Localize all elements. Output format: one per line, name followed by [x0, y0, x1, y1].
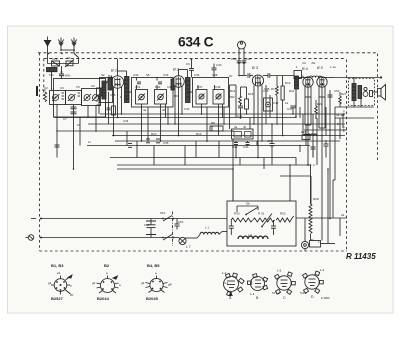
- mains filter capacitor C50: [146, 219, 156, 238]
- wire B1 anode: [117, 59, 119, 76]
- tuned circuit box L2: [66, 91, 82, 105]
- chassis dashed border inner left: [43, 59, 45, 96]
- motor unit M: [301, 218, 308, 251]
- svg-text:1 1a: 1 1a: [330, 65, 336, 69]
- svg-text:C4a: C4a: [232, 145, 238, 149]
- mains line bottom: [40, 237, 179, 239]
- resistor R27 vertical: [339, 96, 342, 104]
- padder capacitor C6: [109, 83, 112, 85]
- coupling unit box: [294, 71, 302, 79]
- wire C44 to B3: [250, 75, 253, 77]
- valve B4: [302, 67, 313, 87]
- IF transformer T1 winding: [125, 77, 130, 103]
- svg-text:R13: R13: [196, 132, 202, 136]
- svg-text:R32: R32: [280, 212, 286, 216]
- svg-text:C9: C9: [186, 62, 190, 66]
- svg-text:D: D: [311, 295, 314, 299]
- IF transformer T2 winding: [186, 78, 191, 103]
- switch S2 range: [65, 56, 74, 67]
- capacitor C49: [242, 57, 251, 76]
- bus line y169: [117, 168, 233, 170]
- svg-text:C3b: C3b: [167, 85, 173, 89]
- resistor R8 bus box: [210, 126, 223, 131]
- T4 secondary winding: [358, 86, 362, 99]
- capacitor C21 bus: [156, 138, 160, 140]
- wire choke to box: [219, 232, 222, 235]
- valve B3: [252, 65, 264, 86]
- capacitor C13: [158, 81, 162, 83]
- svg-text:B 3: B 3: [252, 65, 259, 70]
- capacitor C52: [328, 94, 333, 96]
- valve base B4 B5: [141, 263, 173, 301]
- svg-text:1-4: 1-4: [250, 292, 255, 296]
- T4 primary winding: [352, 84, 356, 101]
- svg-text:g4: g4: [92, 281, 96, 285]
- svg-text:S7: S7: [229, 74, 233, 78]
- svg-text:B 1: B 1: [111, 68, 117, 73]
- front end outer box: [54, 79, 106, 118]
- svg-text:R8: R8: [211, 121, 215, 125]
- chassis dashed border top: [38, 52, 378, 54]
- wire anode top bus: [294, 77, 310, 79]
- valve B2: [173, 67, 185, 88]
- bus line y139: [115, 140, 340, 142]
- mains switch SK1a: [163, 216, 172, 222]
- svg-text:C19: C19: [52, 57, 58, 61]
- svg-text:C5: C5: [76, 85, 80, 89]
- svg-text:C6: C6: [91, 84, 95, 88]
- AF transformer winding T3: [295, 76, 299, 89]
- aerial filter unit AM: [47, 68, 58, 72]
- trimmer ticks L1: [62, 92, 65, 94]
- svg-text:1-2: 1-2: [222, 271, 227, 275]
- junction dots grid: [48, 53, 331, 220]
- wire filter down: [51, 72, 53, 91]
- capacitor C9 top feed: [189, 60, 194, 78]
- wire B5 loop join: [319, 96, 325, 98]
- svg-text:S5: S5: [146, 73, 150, 77]
- wire lamp to choke: [178, 238, 181, 239]
- trimmer C15: [216, 94, 221, 99]
- svg-text:Sb: Sb: [246, 202, 250, 206]
- svg-text:S1: S1: [67, 56, 71, 60]
- coil unit C bottom view: [272, 269, 295, 301]
- svg-text:C2: C2: [44, 86, 48, 90]
- right vertical wires: [302, 76, 304, 78]
- chassis dashed border right inner: [346, 60, 348, 252]
- svg-text:C33: C33: [184, 107, 190, 111]
- capacitor C51: [175, 219, 184, 230]
- svg-text:R4: R4: [108, 74, 112, 78]
- wire T1 drops: [141, 104, 143, 141]
- svg-text:4b: 4b: [243, 125, 247, 129]
- wire drops detector area: [232, 139, 234, 201]
- mains entry dash: [31, 218, 36, 220]
- valve interior shading: [115, 76, 324, 88]
- capacitor C17: [238, 105, 243, 107]
- wire right-mid verticals: [302, 114, 304, 136]
- svg-text:2a: 2a: [341, 213, 345, 217]
- svg-text:1b: 1b: [77, 123, 81, 127]
- mains switch SK1b: [163, 235, 172, 241]
- svg-text:C36: C36: [194, 73, 200, 77]
- dial lamp LP top: [238, 41, 246, 61]
- IF unit box T2: [193, 78, 229, 108]
- capacitor C48: [231, 57, 241, 76]
- wire stubs under detector: [239, 158, 241, 166]
- svg-text:C38: C38: [212, 73, 218, 77]
- svg-text:R27: R27: [341, 92, 347, 96]
- valve base B2: [92, 263, 121, 301]
- extra small labels: [108, 74, 295, 111]
- svg-text:R28: R28: [313, 197, 319, 201]
- svg-text:B1, B3: B1, B3: [51, 263, 64, 268]
- svg-text:R9: R9: [174, 94, 178, 98]
- svg-text:C52: C52: [334, 89, 340, 93]
- mains plug P: [26, 235, 34, 241]
- valve B1: [111, 68, 124, 89]
- ballast resistor R32: [276, 216, 294, 222]
- IF unit box T1: [132, 78, 174, 108]
- wire B5 drops: [318, 87, 320, 129]
- svg-text:C27: C27: [267, 139, 273, 143]
- svg-text:R10: R10: [151, 132, 157, 136]
- trimmer C10: [139, 94, 145, 100]
- wire drops mid-right extra: [229, 85, 231, 129]
- resistor R19 tall: [281, 86, 284, 100]
- capacitor C43: [311, 146, 316, 148]
- tuned circuit T2b: [213, 90, 224, 105]
- tuned circuit box L1: [50, 91, 66, 105]
- tuned circuit box L3: [82, 89, 101, 106]
- tuned circuit T1a: [136, 90, 148, 105]
- detector cell 1: [234, 132, 242, 138]
- chassis dashed border right outer: [377, 54, 379, 161]
- svg-text:R 11435: R 11435: [346, 252, 376, 261]
- wire B3 drops: [253, 86, 255, 125]
- trimmer core dots: [55, 96, 220, 99]
- wire drops into box: [232, 169, 234, 201]
- capacitor C16: [107, 107, 111, 109]
- oscillator coil box L4: [100, 78, 113, 103]
- capacitor C1: [59, 66, 71, 79]
- svg-text:SK1: SK1: [160, 211, 166, 215]
- svg-text:C33: C33: [163, 73, 169, 77]
- capacitor C22 bus: [128, 143, 132, 145]
- mains line top: [40, 218, 227, 220]
- svg-text:C45: C45: [263, 89, 269, 93]
- svg-text:R17: R17: [271, 87, 277, 91]
- svg-text:40%: 40%: [65, 74, 71, 78]
- wire left column parts: [97, 88, 102, 96]
- svg-text:C31: C31: [135, 85, 141, 89]
- svg-text:R21: R21: [289, 89, 295, 93]
- wire B1 drops: [113, 87, 115, 136]
- svg-text:1-5: 1-5: [277, 269, 282, 273]
- wire aerial bus: [48, 63, 79, 65]
- valve B5: [317, 66, 327, 87]
- capacitor C23: [234, 142, 238, 144]
- mains unit box: [227, 201, 296, 246]
- bus line y135: [112, 135, 345, 137]
- bus line y160: [117, 164, 310, 166]
- ballast resistor R30: [231, 218, 253, 222]
- svg-text:634 C: 634 C: [178, 35, 214, 50]
- wire drops front end: [56, 105, 58, 158]
- bus line y145: [87, 145, 310, 147]
- wire B2 drops: [174, 86, 176, 124]
- svg-text:1-2: 1-2: [320, 268, 325, 272]
- output transformer dashed box T4: [349, 79, 375, 106]
- ballast resistor R31: [253, 218, 275, 222]
- terminal box: [310, 241, 321, 248]
- svg-text:L 6: L 6: [248, 233, 252, 237]
- capacitor C47 cathode: [291, 105, 296, 107]
- svg-text:L 1: L 1: [205, 226, 209, 230]
- svg-text:C7: C7: [63, 117, 67, 121]
- trimmer C11: [158, 94, 164, 100]
- svg-text:C50: C50: [144, 223, 150, 227]
- capacitor C12: [137, 81, 141, 83]
- svg-text:3-3a: 3-3a: [342, 110, 346, 116]
- resistor R25: [302, 135, 310, 140]
- svg-text:R30: R30: [234, 212, 240, 216]
- svg-text:R14: R14: [230, 89, 236, 93]
- wire grid bus y73: [239, 75, 247, 77]
- svg-text:# 4000: # 4000: [321, 296, 330, 300]
- svg-text:C41: C41: [237, 114, 243, 118]
- capacitor C53: [229, 225, 234, 227]
- resistor R16: [245, 99, 249, 109]
- svg-text:C51: C51: [178, 220, 184, 224]
- antenna A2: [58, 38, 63, 51]
- resistor R18 vertical: [276, 86, 279, 96]
- wire T2 drops: [201, 104, 203, 114]
- chassis dashed border bottom: [40, 250, 348, 252]
- svg-text:C35: C35: [163, 141, 169, 145]
- capacitor C27: [270, 143, 275, 145]
- svg-text:4a: 4a: [234, 125, 238, 129]
- svg-text:C34: C34: [123, 119, 129, 123]
- loudspeaker LS: [378, 85, 386, 101]
- lead-in arrow mark: [36, 86, 38, 96]
- trimmer ticks L2: [78, 92, 81, 94]
- svg-text:R22: R22: [317, 102, 323, 106]
- wire C46 right: [270, 75, 294, 77]
- svg-text:B2527: B2527: [51, 296, 64, 301]
- svg-text:C48: C48: [231, 57, 237, 61]
- coupling winding left of B1: [108, 78, 112, 90]
- capacitor C24: [246, 142, 250, 144]
- svg-text:g4: g4: [48, 281, 52, 285]
- svg-text:5,6-2: 5,6-2: [300, 291, 307, 295]
- field coil L8: [304, 134, 317, 136]
- wire B1 grid: [106, 76, 113, 84]
- svg-text:C15: C15: [110, 93, 116, 97]
- chassis dashed border left: [39, 53, 41, 251]
- bus line y117: [54, 117, 296, 119]
- svg-text:L 7: L 7: [186, 245, 191, 249]
- coil unit D bottom view: [300, 268, 330, 300]
- speaker magnet circles: [363, 92, 368, 97]
- svg-text:C32: C32: [155, 85, 161, 89]
- coupling winding left of B2: [171, 79, 174, 90]
- svg-text:g4: g4: [141, 281, 145, 285]
- variable capacitor C3: [69, 95, 75, 101]
- wire drops to terminal box: [327, 169, 329, 244]
- svg-text:C4b: C4b: [243, 145, 249, 149]
- detector cell 2: [245, 132, 252, 138]
- svg-text:C47: C47: [287, 107, 293, 111]
- capacitor C40: [324, 143, 329, 145]
- svg-text:50k: 50k: [230, 95, 235, 99]
- bus line y114: [100, 113, 345, 115]
- valve base B1 B3: [48, 263, 74, 301]
- svg-text:B 4: B 4: [302, 67, 308, 71]
- resistor R5: [112, 106, 116, 115]
- svg-text:C37: C37: [197, 85, 203, 89]
- wire B4 loop join: [305, 96, 311, 98]
- wire antenna link: [61, 49, 74, 51]
- resistor R28 vertical: [309, 204, 312, 233]
- capacitor C44: [247, 73, 249, 77]
- svg-text:C30: C30: [133, 73, 139, 77]
- svg-text:R16: R16: [248, 92, 254, 96]
- svg-text:R 31: R 31: [258, 212, 265, 216]
- bus line y130 right: [304, 129, 347, 131]
- capacitor C20 bus: [146, 138, 150, 140]
- tuned circuit T1b: [155, 90, 167, 105]
- svg-text:4b: 4b: [162, 108, 166, 112]
- svg-text:JW: JW: [311, 61, 315, 65]
- tuned circuit T2a: [196, 90, 207, 105]
- svg-text:2a: 2a: [57, 271, 61, 275]
- wire speaker leads: [373, 91, 378, 93]
- svg-text:40k: 40k: [96, 103, 101, 107]
- wire T4 top: [353, 78, 355, 84]
- svg-text:2-2a: 2-2a: [342, 126, 346, 132]
- svg-text:B2: B2: [104, 263, 110, 268]
- bus line y118: [335, 117, 374, 119]
- antenna A3: [71, 38, 76, 54]
- wire B2 anode: [178, 70, 180, 76]
- svg-text:C39: C39: [215, 85, 221, 89]
- svg-text:5Y1-2: 5Y1-2: [272, 291, 280, 295]
- wire B3 to C46: [263, 75, 268, 77]
- variable capacitor C2: [53, 95, 59, 101]
- coil winding L4: [102, 81, 106, 99]
- svg-text:3-4: 3-4: [224, 281, 229, 285]
- svg-text:1a: 1a: [285, 101, 289, 105]
- selector arrow: [262, 214, 272, 227]
- capacitor C46: [267, 73, 269, 77]
- resistor R2 left column: [43, 92, 46, 102]
- bus line y152: [110, 157, 296, 159]
- chassis dashed border inner top: [44, 58, 346, 60]
- svg-text:B 5: B 5: [317, 66, 324, 70]
- capacitor C54: [271, 225, 276, 227]
- svg-text:S2: S2: [101, 73, 105, 77]
- svg-text:C: C: [283, 296, 286, 300]
- svg-text:C3: C3: [60, 86, 64, 90]
- coil unit B bottom view: [248, 274, 268, 300]
- bus line y131: [57, 130, 233, 132]
- svg-text:C42: C42: [273, 101, 279, 105]
- wire extra IF drops: [136, 85, 138, 90]
- antenna A1: [44, 37, 51, 64]
- resistor R15: [239, 96, 242, 105]
- resistor R22 cathode: [315, 106, 318, 114]
- svg-text:2b: 2b: [70, 293, 74, 297]
- svg-text:B2045: B2045: [146, 296, 159, 301]
- pilot lamp L7: [179, 237, 191, 249]
- svg-text:B4, B5: B4, B5: [147, 263, 160, 268]
- resistor R1 aerial series: [52, 57, 60, 66]
- capacitor C39b top: [212, 63, 222, 78]
- coil unit A bottom view: [222, 271, 244, 300]
- trimmer C14: [199, 94, 204, 99]
- wire box to right bus: [296, 217, 347, 219]
- svg-text:R19: R19: [285, 81, 291, 85]
- variable capacitor C5: [93, 95, 99, 101]
- wire B4 drops: [304, 87, 306, 126]
- svg-text:4a: 4a: [143, 108, 147, 112]
- valve heater ticks: [115, 84, 121, 86]
- svg-text:B2044: B2044: [97, 296, 110, 301]
- junction dots buses: [141, 140, 143, 142]
- detector unit box: [232, 129, 254, 139]
- wire R18 drops: [276, 76, 278, 87]
- svg-text:C40: C40: [216, 63, 222, 67]
- wire cluster drops B3: [240, 87, 242, 96]
- capacitor C7 stack: [71, 107, 77, 114]
- svg-text:4.0: 4.0: [302, 61, 306, 65]
- bus line y124: [88, 123, 345, 125]
- switch gang link dot-dash: [172, 212, 174, 247]
- tiny value labels: [44, 61, 347, 244]
- choke L1: [200, 232, 219, 234]
- bus line y107: [335, 106, 374, 108]
- tuned box AF: [264, 98, 273, 111]
- variable capacitor C4: [84, 95, 90, 101]
- wire terminal up: [339, 218, 341, 236]
- switch S1 aerial: [74, 54, 79, 58]
- heater winding L6: [238, 236, 268, 239]
- svg-text:C49: C49: [245, 57, 251, 61]
- voltage selector switch SK2: [237, 202, 258, 216]
